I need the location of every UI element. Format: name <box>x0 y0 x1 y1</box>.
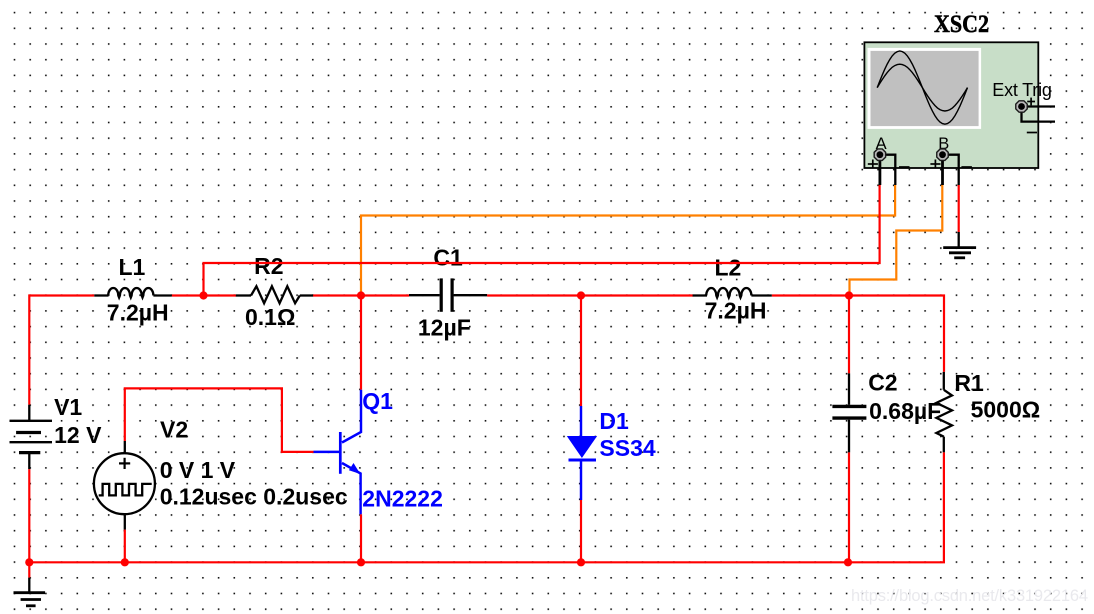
svg-text:Q1: Q1 <box>362 388 393 414</box>
svg-text:R2: R2 <box>254 253 283 279</box>
svg-text:R1: R1 <box>954 370 984 396</box>
svg-text:V2: V2 <box>160 416 188 442</box>
svg-text:5000Ω: 5000Ω <box>971 397 1041 423</box>
svg-text:Ext Trig: Ext Trig <box>992 80 1052 100</box>
svg-text:C1: C1 <box>433 245 463 271</box>
svg-text:7.2µH: 7.2µH <box>107 299 169 325</box>
svg-text:XSC2: XSC2 <box>934 11 989 38</box>
svg-text:0.1Ω: 0.1Ω <box>245 304 295 330</box>
svg-text:V1: V1 <box>54 394 82 420</box>
svg-text:L2: L2 <box>715 254 742 280</box>
svg-text:D1: D1 <box>599 408 629 434</box>
svg-text:0 V 1 V: 0 V 1 V <box>160 457 236 483</box>
svg-text:0.12usec 0.2usec: 0.12usec 0.2usec <box>160 484 348 510</box>
svg-text:C2: C2 <box>868 370 897 396</box>
svg-text:12 V: 12 V <box>54 422 102 448</box>
svg-text:0.68µF: 0.68µF <box>869 398 941 424</box>
svg-text:https://blog.csdn.net/k3319221: https://blog.csdn.net/k331922164 <box>851 587 1088 605</box>
svg-text:7.2µH: 7.2µH <box>705 297 767 323</box>
svg-text:L1: L1 <box>119 254 146 280</box>
svg-text:12µF: 12µF <box>418 315 471 341</box>
svg-text:SS34: SS34 <box>599 435 655 461</box>
svg-text:2N2222: 2N2222 <box>362 486 443 512</box>
